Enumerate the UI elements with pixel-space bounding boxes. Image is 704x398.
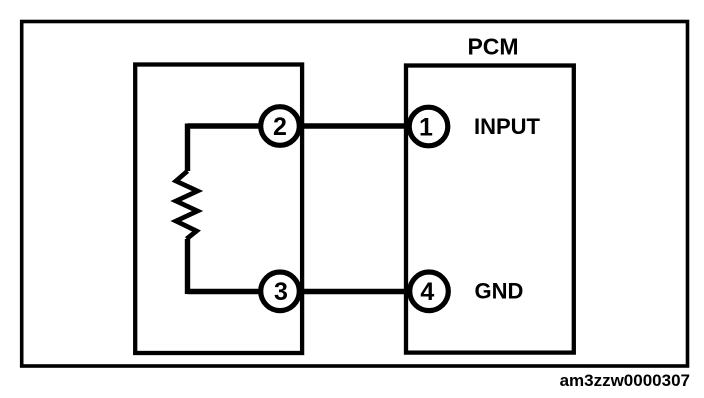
svg-text:PCM: PCM [467,33,518,59]
svg-text:GND: GND [475,278,524,303]
svg-text:3: 3 [274,278,288,306]
svg-text:2: 2 [273,113,287,141]
svg-text:1: 1 [419,113,433,141]
svg-text:INPUT: INPUT [474,114,541,139]
svg-text:4: 4 [420,278,434,306]
svg-text:am3zzw0000307: am3zzw0000307 [560,371,690,390]
